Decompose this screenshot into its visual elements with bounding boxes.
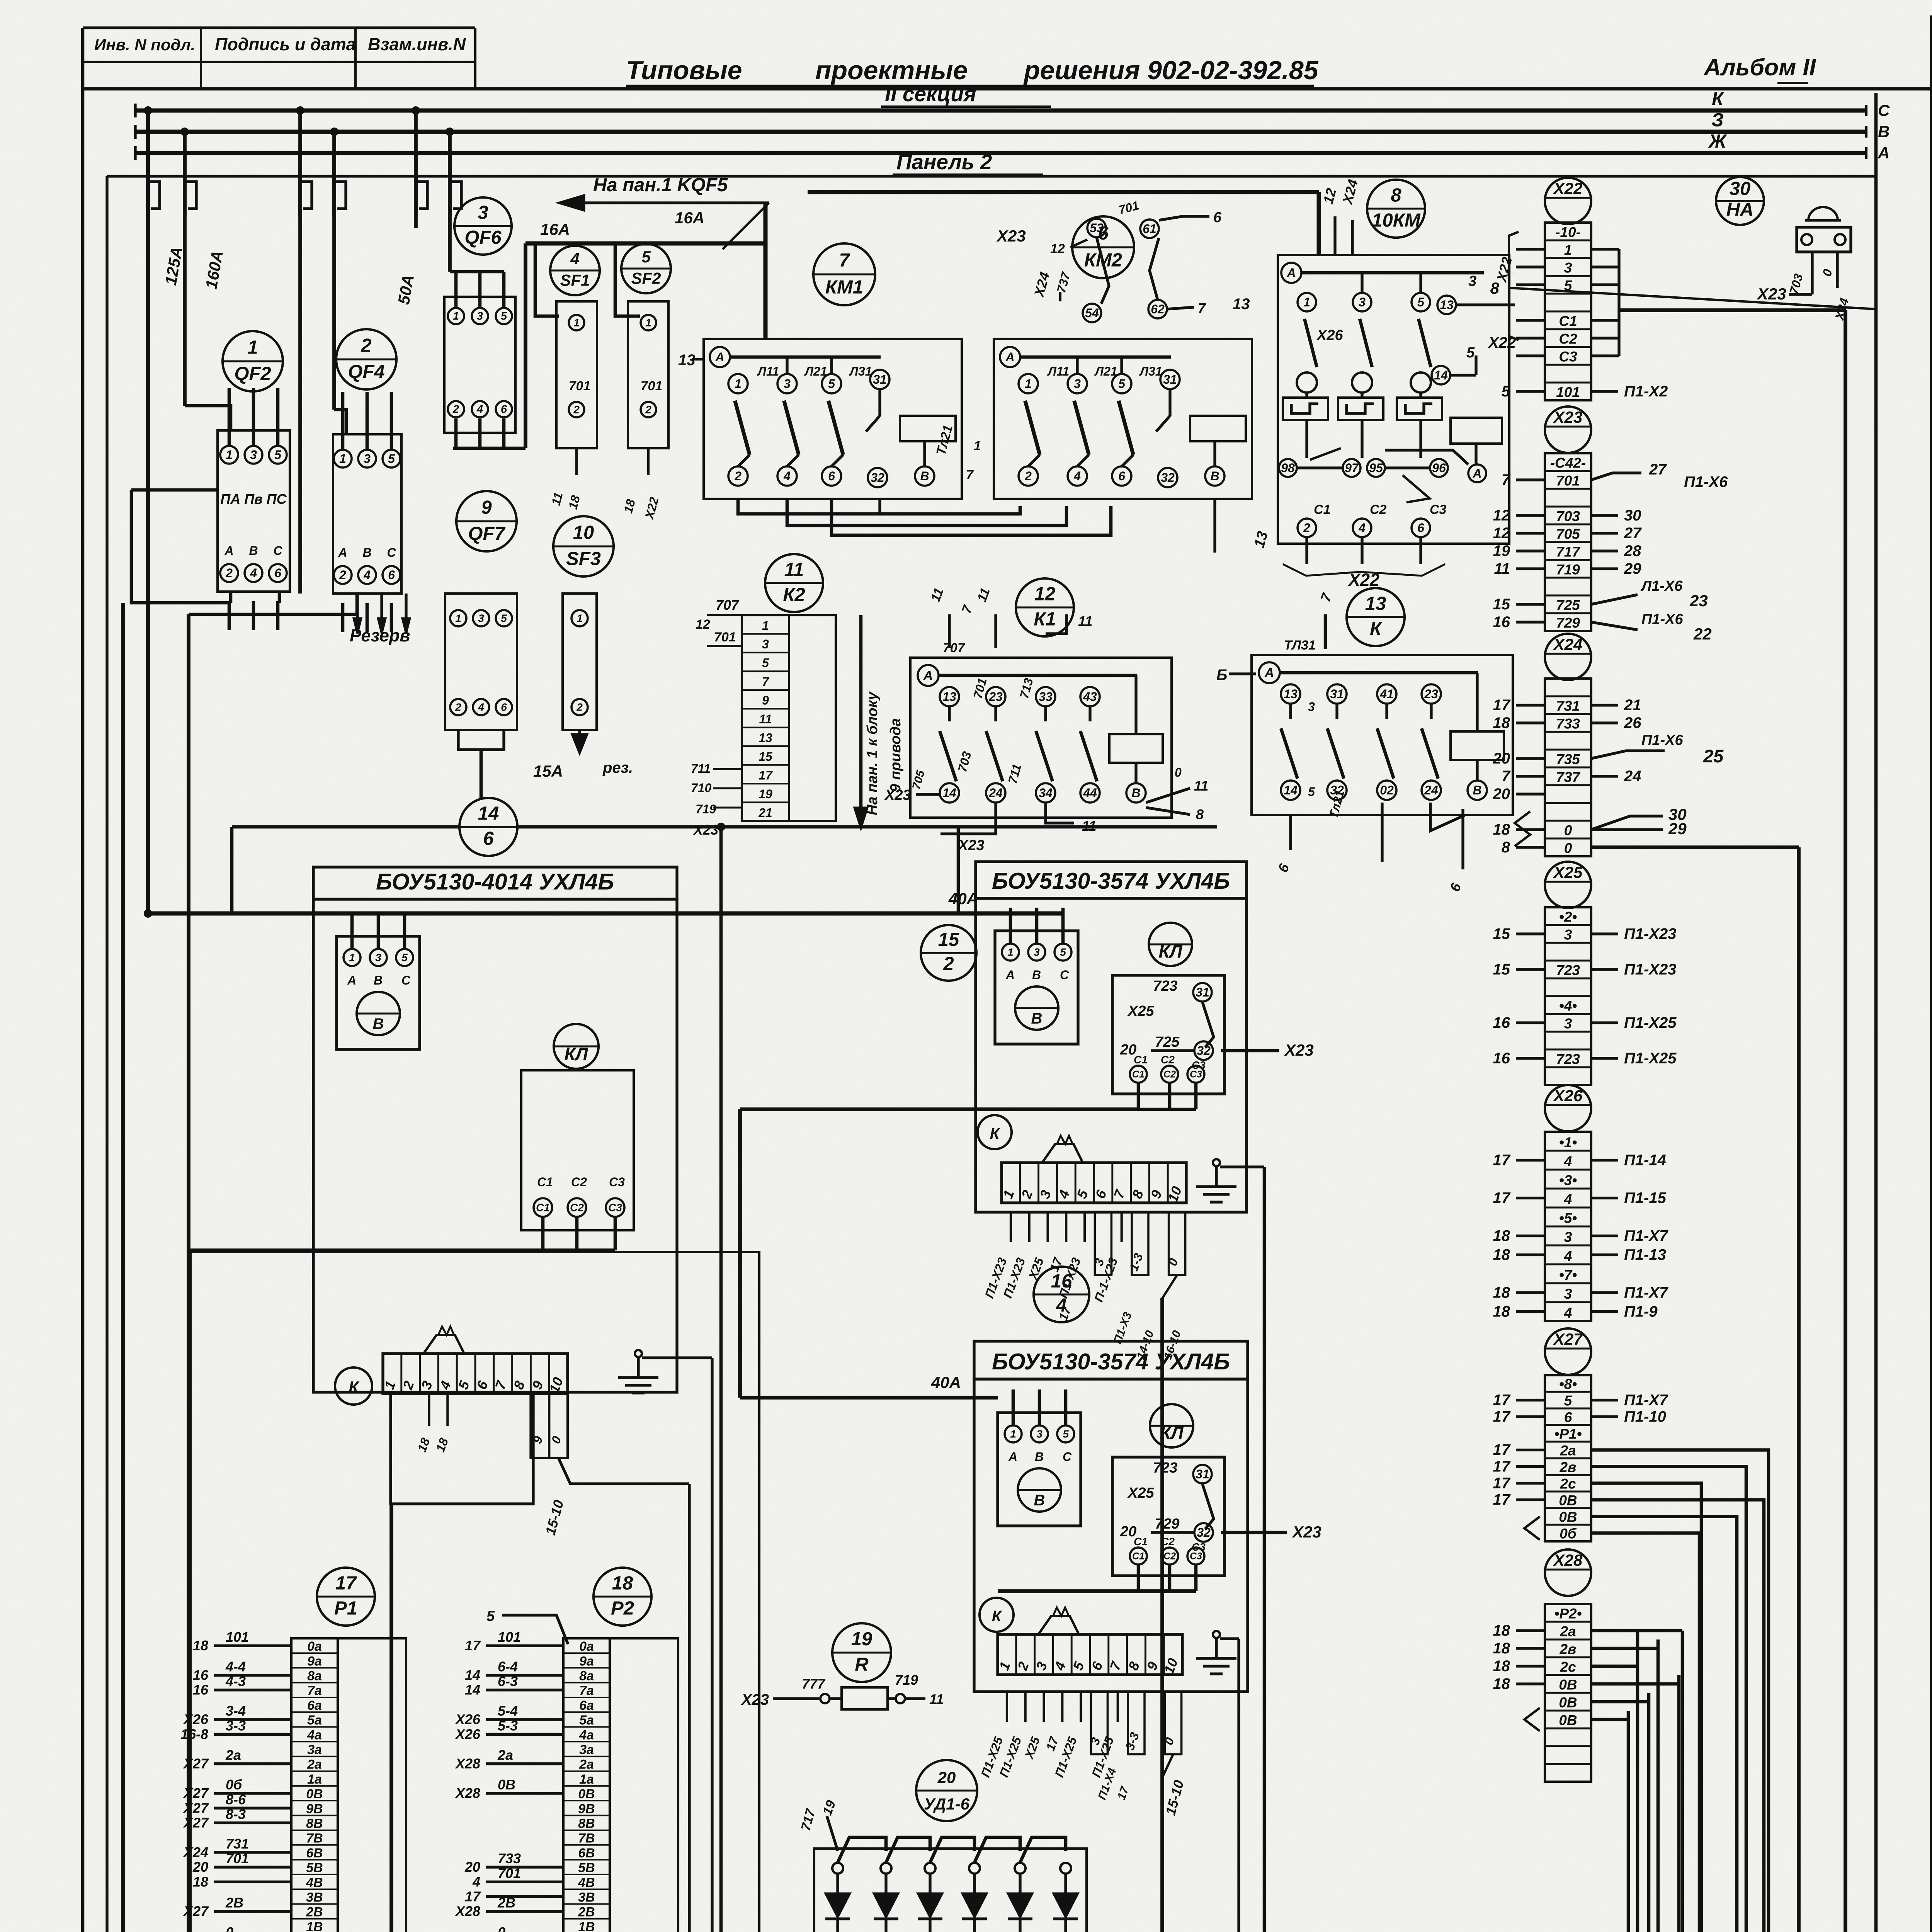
svg-text:6-3: 6-3 [498,1673,518,1689]
svg-text:32: 32 [1197,1044,1211,1058]
svg-text:701: 701 [498,1865,521,1881]
svg-text:•3•: •3• [1559,1172,1577,1188]
svg-text:В: В [373,1015,384,1032]
svg-text:Х28: Х28 [455,1756,480,1772]
svg-text:3а: 3а [579,1742,594,1757]
svg-text:28: 28 [1624,543,1641,560]
svg-text:ТЛ31: ТЛ31 [1284,638,1316,653]
svg-text:В: В [374,973,383,987]
svg-text:6-4: 6-4 [498,1659,518,1675]
svg-text:54: 54 [1085,306,1099,320]
svg-text:•1•: •1• [1559,1134,1577,1150]
svg-text:2: 2 [576,701,583,713]
svg-text:17: 17 [1493,1190,1511,1207]
svg-text:701: 701 [641,379,663,393]
svg-text:32: 32 [1161,471,1175,485]
svg-text:А: А [1472,466,1481,480]
svg-text:3В: 3В [306,1890,323,1905]
svg-text:1а: 1а [579,1772,594,1787]
svg-text:П1-Х23: П1-Х23 [1624,925,1677,942]
svg-text:5: 5 [501,310,507,323]
svg-text:Х27: Х27 [183,1785,209,1801]
svg-text:А: А [224,544,233,558]
svg-text:8: 8 [1196,806,1204,822]
svg-text:4а: 4а [307,1728,322,1742]
svg-text:53: 53 [1090,221,1104,235]
svg-text:3: 3 [478,612,484,624]
svg-text:С3: С3 [608,1201,622,1213]
svg-text:8В: 8В [306,1816,323,1831]
svg-text:Х25: Х25 [1127,1485,1154,1501]
svg-text:719: 719 [696,802,716,816]
svg-text:QF7: QF7 [468,523,506,544]
svg-text:3: 3 [364,452,371,466]
svg-text:4: 4 [1358,521,1366,535]
svg-text:решения 902-02-392.85: решения 902-02-392.85 [1023,56,1319,85]
svg-text:8-6: 8-6 [226,1791,246,1807]
svg-text:П1-Х6: П1-Х6 [1641,611,1683,628]
svg-text:18: 18 [1493,1247,1510,1264]
svg-text:4-3: 4-3 [225,1673,246,1689]
svg-text:27: 27 [1624,525,1642,542]
svg-text:15: 15 [1493,961,1510,978]
svg-text:5-3: 5-3 [498,1718,518,1733]
svg-text:23: 23 [1424,687,1438,701]
svg-text:В: В [1131,786,1140,800]
svg-text:0: 0 [1564,840,1572,856]
svg-text:0: 0 [1175,765,1182,779]
svg-text:8а: 8а [307,1668,322,1683]
svg-text:На пан. 1 к блоку: На пан. 1 к блоку [864,691,881,815]
svg-text:29: 29 [1624,560,1641,577]
svg-text:6: 6 [483,828,494,849]
svg-text:2: 2 [361,335,371,356]
svg-text:19: 19 [851,1629,872,1650]
svg-text:31: 31 [1163,372,1177,386]
svg-text:15: 15 [1493,596,1510,613]
svg-text:0а: 0а [307,1639,322,1654]
svg-text:707: 707 [943,641,966,655]
svg-text:17: 17 [1493,1475,1511,1492]
svg-text:2а: 2а [225,1747,241,1763]
svg-text:1: 1 [453,310,459,323]
svg-text:725: 725 [1556,597,1580,613]
svg-text:8В: 8В [578,1816,595,1831]
svg-text:3а: 3а [307,1742,322,1757]
svg-text:18: 18 [1493,1675,1510,1692]
svg-text:•5•: •5• [1559,1210,1577,1226]
svg-text:15: 15 [938,929,959,950]
svg-text:А: А [1008,1450,1017,1464]
svg-text:11: 11 [1082,818,1096,834]
svg-text:4: 4 [783,469,791,483]
svg-text:25: 25 [1703,746,1724,766]
svg-text:7: 7 [1502,471,1511,488]
svg-text:707: 707 [716,597,740,613]
svg-text:23: 23 [988,690,1003,704]
svg-text:17: 17 [465,1638,481,1653]
svg-text:725: 725 [1155,1034,1180,1050]
svg-text:16: 16 [1051,1271,1072,1292]
svg-text:А: А [923,668,933,683]
svg-text:31: 31 [1330,687,1344,701]
svg-text:0: 0 [498,1924,505,1932]
svg-text:5: 5 [762,656,769,670]
svg-text:•8•: •8• [1559,1376,1577,1392]
svg-text:•Р2•: •Р2• [1554,1606,1582,1622]
svg-text:31: 31 [1196,985,1209,999]
svg-text:18: 18 [1493,821,1510,838]
svg-text:1: 1 [349,951,355,963]
svg-text:733: 733 [1556,716,1580,732]
svg-text:32: 32 [1197,1526,1211,1539]
svg-text:2: 2 [645,403,651,415]
svg-text:20: 20 [937,1768,956,1786]
svg-text:•4•: •4• [1559,998,1577,1014]
svg-text:С2: С2 [1370,502,1387,517]
svg-text:З: З [1711,110,1724,131]
svg-text:4В: 4В [306,1875,323,1890]
svg-text:705: 705 [1556,526,1580,542]
svg-text:30: 30 [1624,507,1641,524]
svg-text:К2: К2 [783,585,805,605]
svg-text:717: 717 [1556,544,1581,560]
svg-text:723: 723 [1556,963,1580,978]
svg-text:1: 1 [577,612,583,624]
svg-text:5: 5 [828,377,835,391]
svg-text:3: 3 [1036,1428,1043,1440]
svg-text:18: 18 [193,1638,208,1653]
svg-text:23: 23 [1689,592,1708,610]
svg-text:1: 1 [226,448,233,462]
svg-text:9а: 9а [579,1654,594,1668]
svg-text:17: 17 [1493,1458,1511,1475]
svg-text:А: А [715,350,724,364]
svg-text:723: 723 [1153,978,1177,994]
svg-text:Инв. N подл.: Инв. N подл. [94,36,195,54]
svg-text:КЛ: КЛ [564,1044,588,1064]
svg-text:3: 3 [477,310,483,323]
svg-text:4: 4 [478,701,484,713]
svg-text:QF2: QF2 [234,363,271,384]
svg-text:В: В [249,544,258,558]
svg-text:98: 98 [1281,461,1295,475]
svg-text:3: 3 [1564,1286,1572,1302]
svg-text:2: 2 [1024,469,1032,483]
svg-text:•Р1•: •Р1• [1554,1426,1582,1442]
svg-text:2в: 2в [1560,1459,1577,1475]
svg-text:13: 13 [1440,298,1454,312]
svg-text:6В: 6В [306,1846,323,1861]
svg-text:1: 1 [247,337,258,358]
svg-text:12: 12 [1050,241,1065,256]
svg-text:0В: 0В [1559,1509,1577,1525]
svg-text:Х23: Х23 [741,1691,769,1708]
svg-text:С3: С3 [1430,502,1447,517]
svg-text:0б: 0б [1560,1526,1577,1541]
svg-text:С2: С2 [1559,331,1577,347]
svg-text:5: 5 [1564,278,1573,294]
svg-text:02: 02 [1380,783,1394,797]
svg-text:17: 17 [1493,1152,1511,1169]
svg-text:Х24: Х24 [1553,635,1583,653]
svg-text:5: 5 [388,452,395,466]
svg-text:16А: 16А [540,220,570,238]
svg-text:1: 1 [1010,1428,1016,1440]
svg-text:3: 3 [1468,273,1476,289]
svg-text:П1-14: П1-14 [1624,1152,1666,1169]
svg-text:П1-Х25: П1-Х25 [1624,1014,1677,1031]
svg-text:4: 4 [1564,1305,1572,1321]
svg-text:101: 101 [498,1629,521,1645]
svg-text:С2: С2 [1163,1551,1176,1562]
svg-text:15: 15 [1493,925,1510,942]
svg-text:3В: 3В [578,1890,595,1905]
svg-text:2В: 2В [578,1905,595,1920]
svg-text:А: А [1005,350,1014,364]
svg-text:С: С [1063,1450,1072,1464]
svg-text:731: 731 [1556,698,1580,714]
svg-text:33: 33 [1039,690,1053,704]
svg-text:12: 12 [1034,583,1056,604]
svg-text:Х23: Х23 [957,837,985,854]
svg-text:5: 5 [1502,383,1510,400]
svg-text:Х22: Х22 [1553,179,1583,197]
svg-text:4: 4 [1564,1248,1572,1264]
svg-text:П1-9: П1-9 [1624,1303,1658,1320]
svg-text:7а: 7а [579,1684,594,1698]
svg-text:31: 31 [873,372,887,386]
svg-text:Типовые: Типовые [626,56,742,85]
svg-text:34: 34 [1039,786,1053,800]
svg-text:3: 3 [762,637,769,651]
svg-text:101: 101 [1556,384,1580,400]
svg-text:8-3: 8-3 [226,1806,246,1822]
svg-text:729: 729 [1155,1516,1179,1532]
svg-text:2: 2 [1303,521,1310,535]
svg-text:3: 3 [1564,1016,1572,1032]
svg-text:2а: 2а [497,1747,513,1763]
svg-text:18: 18 [1493,1303,1510,1320]
svg-text:4: 4 [363,568,371,582]
svg-text:711: 711 [691,762,711,776]
svg-text:2В: 2В [497,1895,515,1911]
svg-text:3: 3 [478,202,488,223]
svg-text:7: 7 [839,250,850,271]
svg-text:8: 8 [1490,279,1500,297]
svg-text:733: 733 [498,1850,521,1866]
svg-text:1: 1 [1025,377,1032,391]
svg-text:3: 3 [1564,1229,1572,1245]
svg-text:5: 5 [1564,1393,1573,1408]
svg-text:Х23: Х23 [1284,1041,1314,1059]
svg-text:7В: 7В [306,1831,323,1846]
svg-text:3-3: 3-3 [226,1718,246,1733]
svg-text:19: 19 [759,787,772,801]
svg-text:15А: 15А [533,762,563,780]
svg-text:6: 6 [1118,469,1125,483]
svg-text:БОУ5130-3574 УХЛ4Б: БОУ5130-3574 УХЛ4Б [992,1349,1230,1374]
svg-text:С3: С3 [1559,349,1577,365]
svg-text:3: 3 [250,448,257,462]
svg-text:737: 737 [1556,769,1581,785]
svg-text:14: 14 [465,1667,480,1683]
svg-text:8: 8 [1391,185,1401,206]
svg-text:К: К [1712,88,1725,109]
svg-text:16: 16 [1493,1014,1510,1031]
svg-text:С: С [401,973,411,987]
svg-text:11: 11 [759,712,772,726]
svg-text:Х26: Х26 [455,1726,481,1742]
svg-text:А: А [1005,968,1015,982]
svg-text:7: 7 [966,468,974,482]
svg-text:95: 95 [1369,461,1383,475]
svg-text:703: 703 [1556,509,1580,524]
svg-text:735: 735 [1556,752,1580,767]
svg-text:777: 777 [802,1676,826,1692]
svg-text:УД1-6: УД1-6 [924,1795,970,1813]
svg-text:Х23: Х23 [884,787,911,803]
svg-text:3: 3 [1564,927,1572,943]
svg-text:20: 20 [1493,786,1510,803]
svg-text:2а: 2а [1560,1442,1576,1458]
svg-text:43: 43 [1083,690,1097,704]
svg-text:Х24: Х24 [183,1844,208,1860]
svg-text:2а: 2а [307,1757,322,1772]
svg-text:9: 9 [762,694,769,707]
svg-text:С1: С1 [1134,1054,1148,1066]
svg-text:R: R [855,1654,869,1675]
svg-text:Х23: Х23 [1553,408,1583,426]
svg-text:QF4: QF4 [348,361,384,382]
svg-text:41: 41 [1379,687,1394,701]
svg-text:31: 31 [1196,1467,1209,1481]
svg-text:С1: С1 [1559,313,1577,329]
svg-text:5: 5 [501,612,507,624]
svg-text:-С42-: -С42- [1550,455,1586,471]
svg-text:А: А [1286,266,1296,280]
svg-text:Б: Б [1216,667,1227,684]
svg-text:2: 2 [225,566,233,580]
svg-text:40А: 40А [931,1373,961,1391]
svg-text:701: 701 [1556,473,1580,489]
svg-text:14: 14 [1284,783,1298,797]
svg-text:4: 4 [1073,469,1081,483]
svg-text:18: 18 [193,1874,208,1889]
svg-text:5: 5 [1118,377,1126,391]
svg-text:40А: 40А [948,889,978,908]
svg-text:24: 24 [1424,783,1438,797]
svg-text:П1-Х23: П1-Х23 [1624,961,1677,978]
svg-text:проектные: проектные [815,56,968,85]
svg-text:13: 13 [1365,593,1386,614]
svg-text:Л31: Л31 [849,364,872,378]
svg-text:9а: 9а [307,1654,322,1668]
svg-text:Р2: Р2 [611,1598,634,1619]
svg-text:14: 14 [478,803,499,824]
svg-text:2: 2 [452,403,459,416]
svg-text:Альбом II: Альбом II [1703,54,1816,80]
svg-text:3: 3 [1034,946,1040,958]
svg-text:Р1: Р1 [334,1598,357,1619]
svg-text:7: 7 [762,675,770,689]
svg-text:II секция: II секция [885,82,976,106]
svg-text:723: 723 [1556,1051,1580,1067]
svg-text:0В: 0В [498,1777,515,1793]
svg-text:61: 61 [1143,222,1156,236]
svg-text:11: 11 [1078,613,1092,629]
svg-text:4а: 4а [579,1728,594,1742]
svg-text:13: 13 [1284,687,1298,701]
svg-text:Х28: Х28 [1553,1551,1583,1569]
svg-text:6: 6 [1213,209,1222,226]
svg-text:14: 14 [942,786,956,800]
svg-text:1: 1 [1564,242,1572,258]
svg-text:Взам.инв.N: Взам.инв.N [368,34,466,54]
svg-text:П1-Х25: П1-Х25 [1624,1050,1677,1067]
svg-text:4В: 4В [578,1875,595,1890]
svg-text:В: В [1035,1450,1044,1464]
svg-text:2: 2 [734,469,742,483]
svg-text:К1: К1 [1034,609,1056,630]
svg-text:5-4: 5-4 [498,1703,518,1719]
svg-text:9: 9 [481,497,492,518]
svg-text:719: 719 [1556,562,1580,578]
svg-text:26: 26 [1624,714,1641,731]
svg-text:Х26: Х26 [455,1711,481,1727]
svg-text:12: 12 [1493,507,1510,524]
svg-text:5: 5 [1060,946,1066,958]
svg-text:С1: С1 [1314,502,1330,517]
svg-text:701: 701 [569,379,591,393]
svg-text:62: 62 [1151,302,1165,316]
svg-text:3: 3 [375,951,381,963]
svg-text:5: 5 [486,1608,495,1624]
svg-text:Х27: Х27 [183,1903,209,1919]
svg-text:9 привода: 9 привода [888,718,904,792]
svg-text:0В: 0В [1559,1695,1577,1711]
svg-text:22: 22 [1693,625,1712,643]
svg-text:С: С [1060,968,1069,982]
svg-text:1: 1 [1007,946,1014,958]
svg-text:П1-Х7: П1-Х7 [1624,1392,1668,1409]
svg-text:С3: С3 [1192,1059,1206,1071]
svg-text:11: 11 [1494,560,1510,577]
svg-text:5: 5 [1308,785,1315,799]
svg-text:5: 5 [1417,295,1425,309]
svg-text:С3: С3 [609,1175,625,1189]
svg-text:КМ1: КМ1 [825,277,863,298]
svg-text:Х23: Х23 [1757,285,1786,303]
svg-text:6а: 6а [579,1698,594,1713]
svg-text:6: 6 [1564,1409,1572,1425]
svg-text:7: 7 [1502,768,1511,785]
svg-text:17: 17 [1493,1492,1511,1509]
svg-text:3: 3 [1564,260,1572,276]
svg-text:18: 18 [1493,1284,1510,1301]
svg-text:17: 17 [1493,1392,1511,1409]
svg-text:П1-13: П1-13 [1624,1247,1666,1264]
svg-text:16: 16 [193,1682,209,1698]
svg-text:731: 731 [226,1836,249,1852]
svg-text:2: 2 [339,568,346,582]
svg-text:5: 5 [641,248,651,266]
svg-text:Подпись и дата: Подпись и дата [215,34,356,54]
svg-text:П1-Х7: П1-Х7 [1624,1228,1668,1245]
svg-text:1а: 1а [307,1772,322,1787]
svg-text:0: 0 [1564,823,1572,838]
svg-text:2в: 2в [1560,1641,1577,1657]
